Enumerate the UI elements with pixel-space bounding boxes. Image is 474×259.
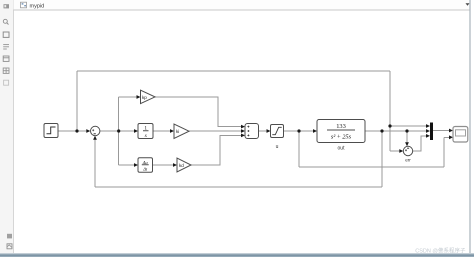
wire: output to err: [406, 131, 408, 144]
node: feedback tap: [380, 129, 383, 132]
arrow into mux 3: [426, 134, 430, 138]
arrow into scope 2: [449, 135, 453, 139]
svg-text:mypid: mypid: [30, 3, 45, 9]
derivative du/dt: [138, 158, 153, 173]
toolbar icon: window: [3, 56, 9, 61]
svg-text:1: 1: [144, 125, 147, 131]
tab model icon: [21, 2, 27, 8]
wire: feedback bottom: [95, 186, 382, 188]
wire: to kp: [119, 96, 138, 98]
err sum circle: [403, 146, 412, 162]
wire: err output: [413, 136, 427, 151]
toolbar icon: annotation: [4, 80, 9, 85]
arrow into kd: [173, 163, 177, 167]
svg-text:out: out: [338, 146, 346, 152]
svg-text:CSDN @佛系程序子: CSDN @佛系程序子: [415, 246, 466, 254]
svg-text:ki: ki: [176, 129, 179, 134]
arrow into ki: [170, 129, 174, 133]
arrow into integrator: [134, 129, 138, 133]
toolbar icon: zoom 100: [3, 44, 9, 46]
toolbar icon: bottom 1: [7, 234, 12, 239]
bottom status bar: [0, 253, 474, 254]
wire: sum to integrator: [100, 130, 135, 132]
wire: kp to sum block: [155, 97, 242, 127]
svg-text:err: err: [405, 158, 411, 163]
wire: saturation to plant: [284, 130, 315, 132]
arrow into sum block 2: [241, 129, 245, 133]
arrow into sum block 1: [241, 125, 245, 129]
toolbar icon: grid: [3, 68, 9, 73]
wire: u line bottom: [299, 166, 444, 168]
arrow into sum circle: [86, 129, 90, 133]
wire: feedback drop: [381, 131, 383, 187]
wire: dudt to kd: [153, 164, 175, 166]
arrow into mux 2: [426, 129, 430, 133]
mux: [430, 123, 433, 141]
wire: reference to err: [390, 150, 400, 152]
node: step branch: [75, 129, 78, 132]
toolbar icon: bottom 2: [7, 244, 12, 249]
arrow into sum circle bottom: [93, 136, 97, 140]
wire: step output: [58, 130, 87, 132]
wire: to dudt: [119, 164, 135, 166]
saturation block u: [271, 125, 284, 150]
wire: reference drop right: [389, 71, 391, 151]
toolbar icon: hide browser: [4, 4, 10, 8]
toolbar icon: fit view: [3, 32, 9, 37]
wire: mux to scope: [433, 130, 450, 132]
integrator 1/s: [138, 124, 153, 139]
svg-text:Δu: Δu: [142, 160, 149, 165]
wire: reference to mux: [390, 125, 427, 127]
top-right tiny control: [466, 3, 470, 6]
svg-text:kp: kp: [142, 95, 147, 100]
gain kp: [141, 90, 156, 103]
wire: sum block to saturation: [259, 130, 268, 132]
arrow into kp: [137, 95, 141, 99]
arrow into err top: [405, 142, 409, 146]
node: ref-mux junction: [388, 124, 391, 127]
arrow into scope 1: [449, 129, 453, 133]
wire: reference top line: [77, 70, 390, 72]
left toolbar strip: [0, 0, 14, 254]
svg-text:Δt: Δt: [142, 167, 148, 172]
tab bar: [14, 0, 471, 10]
node: u tap: [297, 129, 300, 132]
wire: plant output: [365, 130, 427, 132]
wire: kd to sum block: [191, 135, 242, 165]
svg-text:s: s: [145, 133, 147, 139]
node: err tap: [405, 129, 408, 132]
canvas right border: [469, 0, 471, 254]
arrow into err left: [399, 149, 403, 153]
gain kd: [177, 158, 191, 172]
step block Step: [44, 124, 58, 138]
wire: u up to scope: [443, 137, 445, 167]
svg-text:kd: kd: [179, 163, 184, 168]
gain ki: [174, 124, 189, 138]
arrow into mux 1: [426, 124, 430, 128]
wire: reference branch up: [76, 71, 78, 131]
wire: feedback up to sum: [94, 139, 96, 187]
junction dots: [75, 124, 408, 132]
scope: [453, 127, 468, 143]
node: pid branch: [117, 129, 120, 132]
toolbar icon: zoom: [3, 19, 7, 23]
svg-text:s² + 25s: s² + 25s: [331, 134, 352, 141]
wire: integrator to ki: [153, 130, 171, 132]
arrowheads: [86, 95, 453, 167]
arrow into saturation: [267, 129, 271, 133]
wire: branch vertical: [118, 97, 120, 165]
arrow into sum block 3: [241, 134, 245, 138]
arrow into dudt: [134, 163, 138, 167]
wire: u tap down: [298, 131, 300, 167]
wire: u into scope: [444, 136, 450, 138]
sum circle (error): [91, 126, 100, 135]
arrow into plant: [313, 129, 317, 133]
transfer fcn 133/(s^2+25s) out: [317, 120, 365, 152]
svg-text:u: u: [276, 144, 279, 150]
wire: ki to sum block: [189, 130, 242, 132]
sum block Add: [245, 124, 259, 139]
svg-text:133: 133: [336, 123, 346, 130]
